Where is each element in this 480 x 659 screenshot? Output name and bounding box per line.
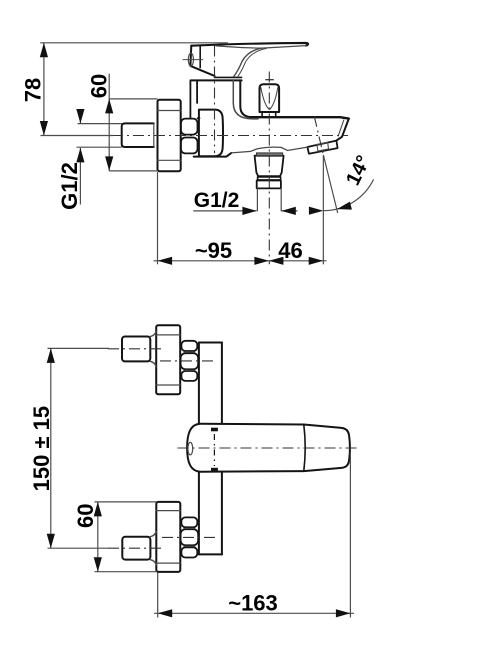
svg-text:60: 60 [86,74,111,98]
svg-text:60: 60 [73,504,98,528]
svg-text:G1/2: G1/2 [57,162,82,210]
svg-text:46: 46 [278,238,302,263]
svg-text:~95: ~95 [195,238,232,263]
svg-text:78: 78 [21,78,46,102]
svg-text:~163: ~163 [228,591,278,616]
svg-text:G1/2: G1/2 [194,189,240,212]
svg-text:150 ± 15: 150 ± 15 [29,406,54,491]
